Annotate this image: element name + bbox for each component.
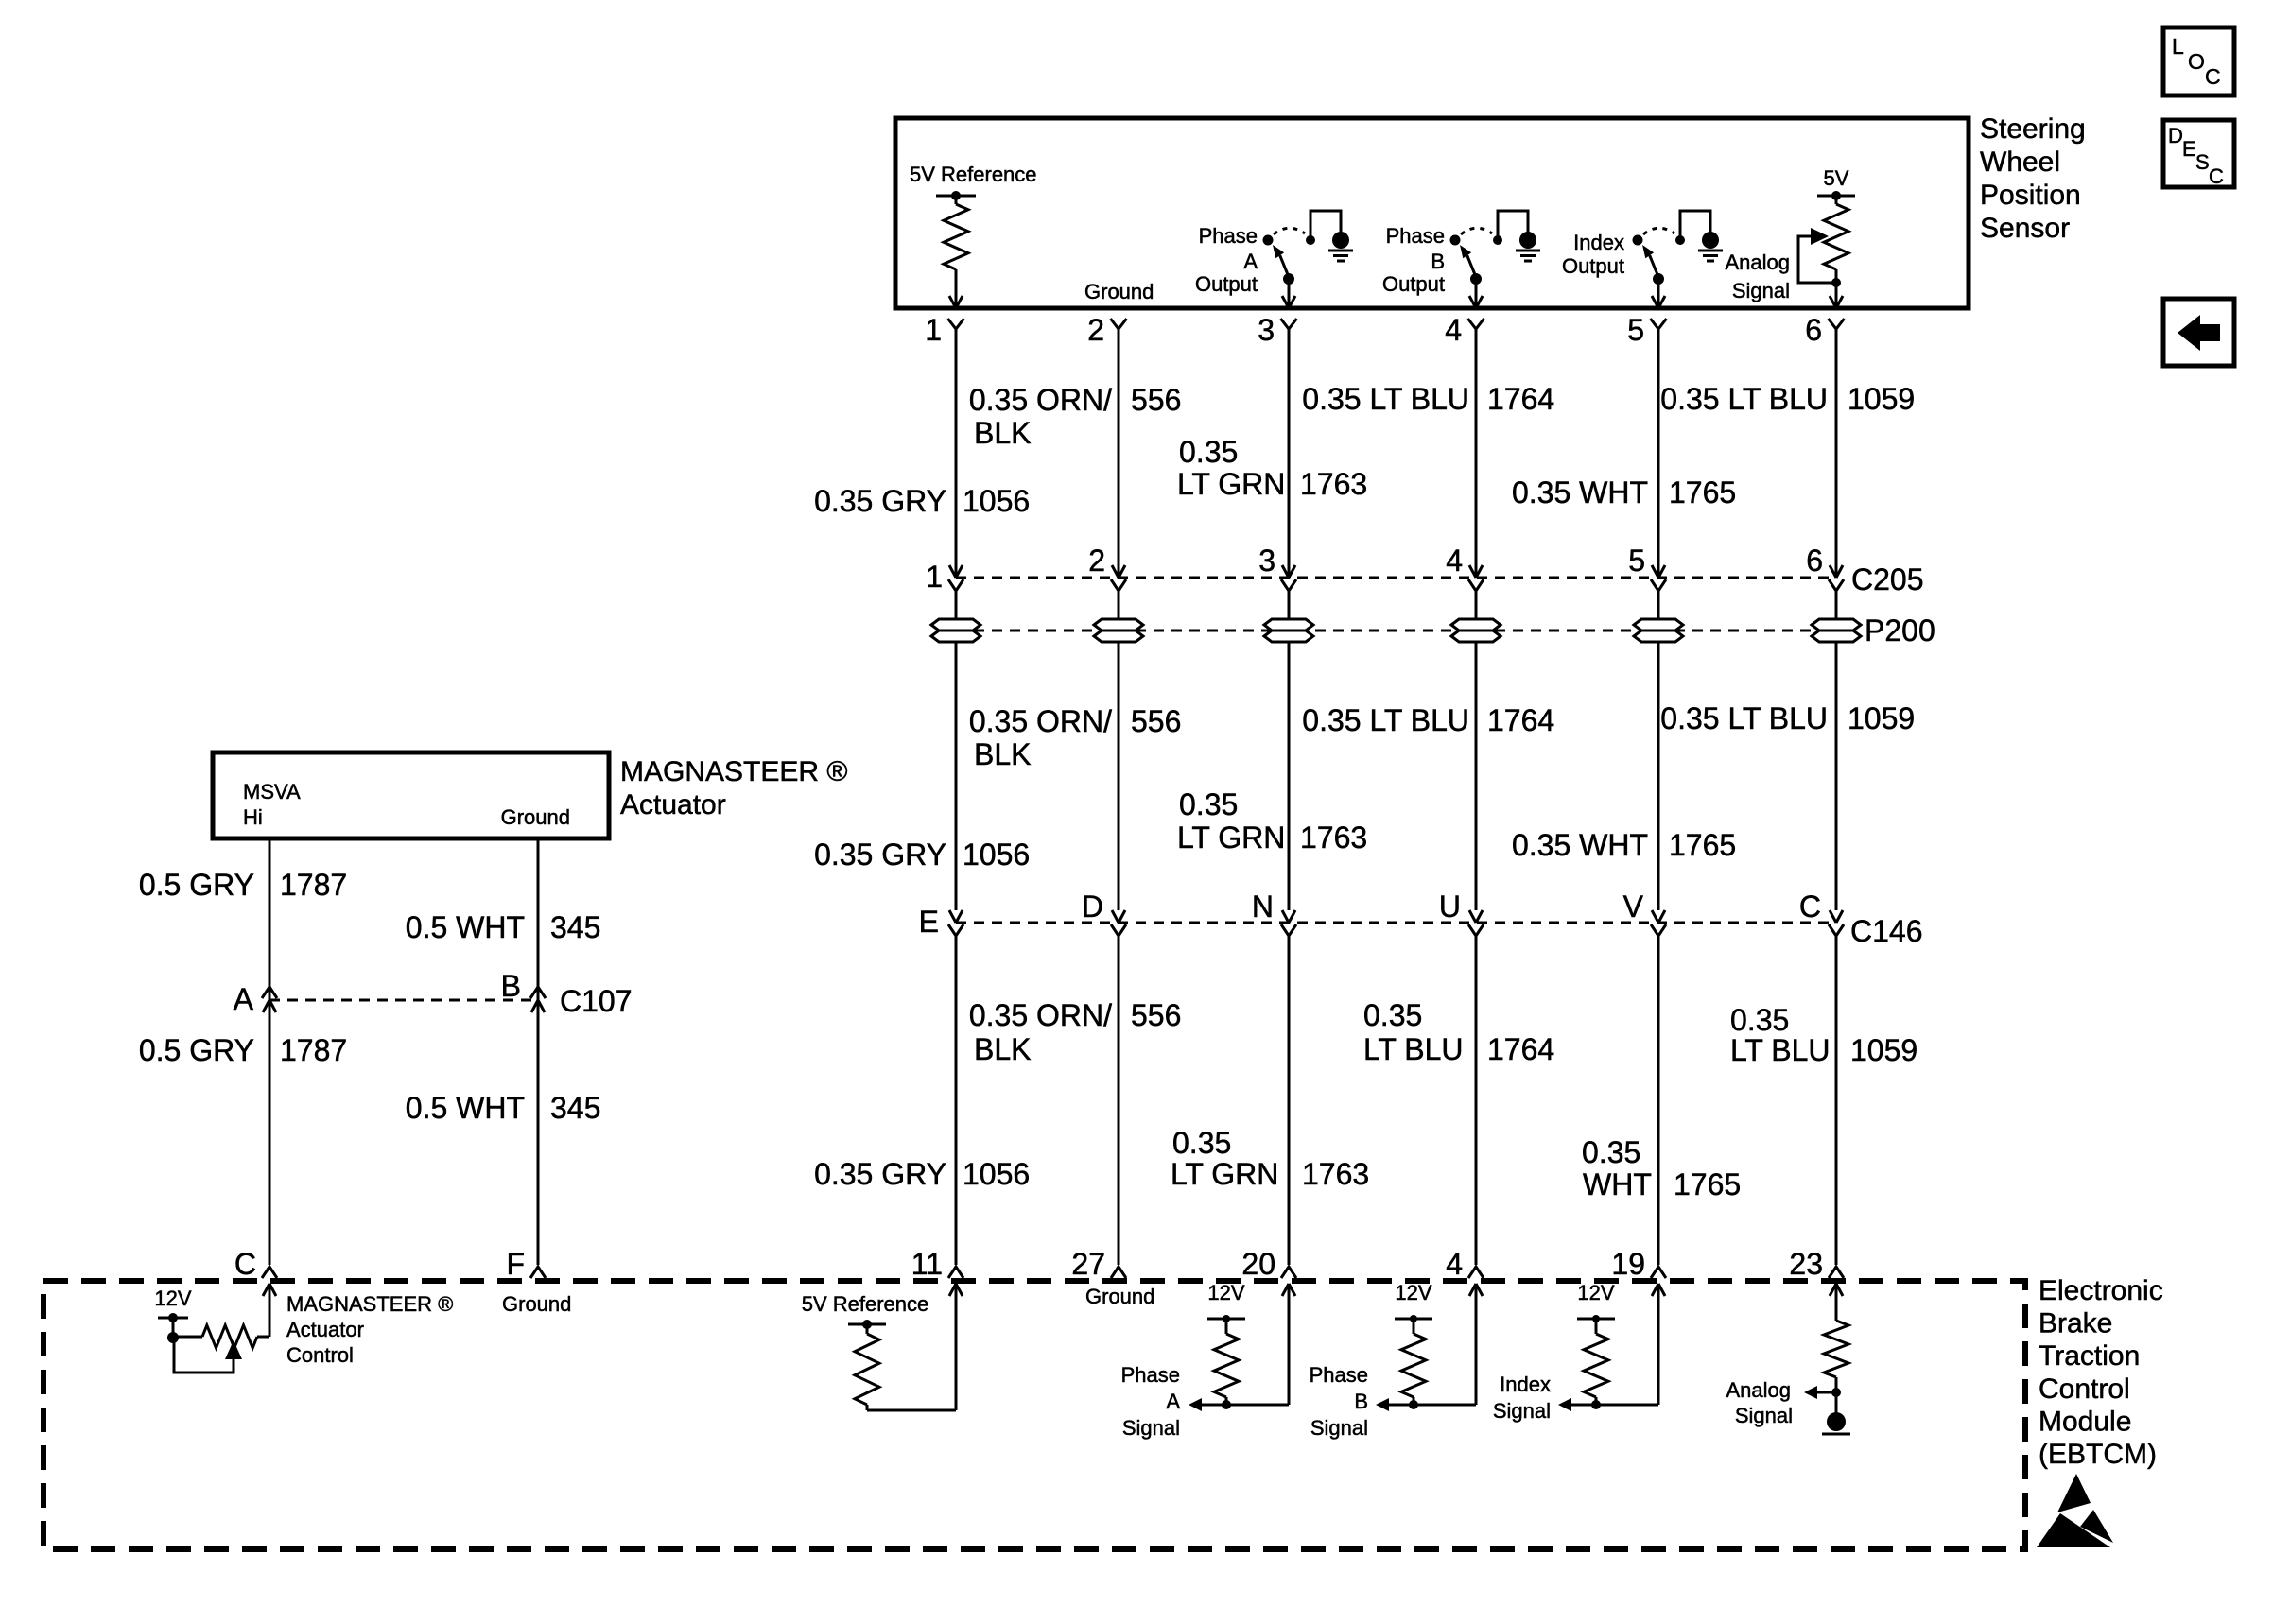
svg-text:Actuator: Actuator <box>286 1318 364 1341</box>
svg-text:MSVA: MSVA <box>243 780 301 803</box>
svg-text:Signal: Signal <box>1735 1404 1793 1427</box>
svg-text:3: 3 <box>1258 313 1275 347</box>
svg-text:B: B <box>1431 250 1445 273</box>
svg-text:LT GRN: LT GRN <box>1171 1157 1278 1191</box>
svg-text:C107: C107 <box>560 984 633 1018</box>
svg-text:LT GRN: LT GRN <box>1177 467 1285 501</box>
svg-text:0.35 ORN/: 0.35 ORN/ <box>969 704 1112 738</box>
svg-text:L: L <box>2172 34 2184 59</box>
svg-text:1: 1 <box>925 313 942 347</box>
svg-text:Phase: Phase <box>1386 224 1445 248</box>
svg-text:U: U <box>1439 890 1461 924</box>
svg-text:LT BLU: LT BLU <box>1730 1033 1831 1067</box>
svg-text:1765: 1765 <box>1669 828 1736 862</box>
svg-text:C: C <box>2205 64 2221 89</box>
svg-text:1059: 1059 <box>1848 701 1915 735</box>
svg-text:1764: 1764 <box>1487 1032 1554 1066</box>
svg-text:0.35 LT BLU: 0.35 LT BLU <box>1302 382 1469 416</box>
svg-text:27: 27 <box>1071 1247 1105 1281</box>
svg-text:556: 556 <box>1131 998 1181 1032</box>
svg-text:Ground: Ground <box>502 1292 571 1316</box>
svg-text:D: D <box>1082 890 1103 924</box>
svg-text:556: 556 <box>1131 383 1181 417</box>
svg-text:0.35: 0.35 <box>1363 998 1422 1032</box>
svg-text:0.5 WHT: 0.5 WHT <box>406 910 525 944</box>
svg-text:Steering: Steering <box>1980 113 2086 145</box>
svg-text:V: V <box>1623 890 1644 924</box>
svg-text:0.35: 0.35 <box>1172 1126 1231 1160</box>
svg-text:F: F <box>506 1247 525 1281</box>
svg-text:(EBTCM): (EBTCM) <box>2039 1439 2157 1470</box>
svg-text:N: N <box>1252 890 1274 924</box>
svg-text:12V: 12V <box>1577 1281 1614 1304</box>
svg-text:4: 4 <box>1445 313 1462 347</box>
svg-text:A: A <box>1243 250 1258 273</box>
svg-text:Signal: Signal <box>1732 279 1790 302</box>
svg-text:Control: Control <box>2039 1373 2130 1405</box>
svg-text:0.35 LT BLU: 0.35 LT BLU <box>1660 701 1828 735</box>
svg-text:0.35 GRY: 0.35 GRY <box>814 484 946 518</box>
svg-text:2: 2 <box>1088 544 1105 578</box>
svg-text:P200: P200 <box>1865 613 1935 648</box>
svg-text:MAGNASTEER ®: MAGNASTEER ® <box>286 1292 453 1316</box>
svg-text:0.5 GRY: 0.5 GRY <box>139 868 254 902</box>
svg-text:Ground: Ground <box>1084 280 1154 303</box>
svg-text:4: 4 <box>1446 1247 1463 1281</box>
svg-text:345: 345 <box>550 910 600 944</box>
svg-text:Hi: Hi <box>243 805 263 829</box>
svg-text:BLK: BLK <box>974 737 1031 771</box>
svg-text:Signal: Signal <box>1310 1416 1368 1440</box>
svg-text:1: 1 <box>926 560 943 594</box>
svg-text:Output: Output <box>1562 254 1624 278</box>
svg-text:0.35 ORN/: 0.35 ORN/ <box>969 383 1112 417</box>
svg-text:1056: 1056 <box>963 1157 1030 1191</box>
svg-text:A: A <box>234 982 254 1016</box>
svg-text:5V: 5V <box>1824 166 1849 190</box>
svg-text:Phase: Phase <box>1121 1363 1180 1387</box>
svg-text:5V Reference: 5V Reference <box>910 163 1037 186</box>
svg-text:1059: 1059 <box>1850 1033 1917 1067</box>
svg-text:A: A <box>1166 1390 1180 1413</box>
svg-text:C146: C146 <box>1850 914 1923 948</box>
svg-text:Analog: Analog <box>1726 1378 1791 1402</box>
svg-text:Output: Output <box>1195 272 1258 296</box>
svg-text:0.5 WHT: 0.5 WHT <box>406 1091 525 1125</box>
svg-text:BLK: BLK <box>974 416 1031 450</box>
svg-text:1764: 1764 <box>1487 703 1554 737</box>
svg-text:B: B <box>501 969 521 1003</box>
svg-text:0.35: 0.35 <box>1730 1003 1789 1037</box>
svg-text:Signal: Signal <box>1122 1416 1180 1440</box>
svg-text:Control: Control <box>286 1343 354 1367</box>
svg-text:Index: Index <box>1573 231 1624 254</box>
svg-text:E: E <box>919 905 939 939</box>
svg-text:Analog: Analog <box>1725 251 1790 274</box>
svg-text:0.35 GRY: 0.35 GRY <box>814 1157 946 1191</box>
svg-text:0.35 LT BLU: 0.35 LT BLU <box>1302 703 1469 737</box>
svg-text:11: 11 <box>911 1247 943 1281</box>
svg-text:12V: 12V <box>1395 1281 1431 1304</box>
svg-text:Ground: Ground <box>501 805 570 829</box>
svg-text:LT GRN: LT GRN <box>1177 821 1285 855</box>
svg-text:12V: 12V <box>154 1287 191 1310</box>
svg-text:C: C <box>2209 164 2224 188</box>
svg-text:12V: 12V <box>1207 1281 1244 1304</box>
svg-text:20: 20 <box>1241 1247 1275 1281</box>
svg-text:1787: 1787 <box>280 868 347 902</box>
svg-text:23: 23 <box>1789 1247 1823 1281</box>
svg-text:4: 4 <box>1446 544 1463 578</box>
svg-text:1765: 1765 <box>1669 475 1736 510</box>
svg-text:C: C <box>234 1247 256 1281</box>
svg-text:O: O <box>2188 49 2205 74</box>
svg-text:0.5 GRY: 0.5 GRY <box>139 1033 254 1067</box>
svg-text:D: D <box>2168 124 2183 147</box>
svg-text:3: 3 <box>1258 544 1275 578</box>
svg-text:C205: C205 <box>1851 562 1924 596</box>
svg-text:WHT: WHT <box>1583 1167 1652 1201</box>
svg-text:1059: 1059 <box>1848 382 1915 416</box>
svg-text:E: E <box>2182 137 2196 161</box>
svg-text:5: 5 <box>1627 313 1644 347</box>
svg-text:5: 5 <box>1628 544 1645 578</box>
svg-text:0.35 WHT: 0.35 WHT <box>1512 475 1648 510</box>
svg-text:B: B <box>1354 1390 1368 1413</box>
svg-text:345: 345 <box>550 1091 600 1125</box>
svg-text:Brake: Brake <box>2039 1308 2112 1339</box>
svg-text:1763: 1763 <box>1300 467 1367 501</box>
svg-text:Traction: Traction <box>2039 1340 2140 1372</box>
svg-text:0.35: 0.35 <box>1179 787 1238 821</box>
svg-text:1763: 1763 <box>1302 1157 1369 1191</box>
svg-text:Output: Output <box>1382 272 1445 296</box>
svg-text:Phase: Phase <box>1310 1363 1368 1387</box>
svg-text:Sensor: Sensor <box>1980 213 2070 244</box>
svg-text:0.35: 0.35 <box>1179 435 1238 469</box>
svg-text:0.35: 0.35 <box>1582 1135 1640 1169</box>
svg-text:1056: 1056 <box>963 838 1030 872</box>
svg-text:6: 6 <box>1806 544 1823 578</box>
svg-text:Wheel: Wheel <box>1980 147 2060 178</box>
svg-text:Electronic: Electronic <box>2039 1275 2163 1306</box>
svg-text:S: S <box>2195 150 2210 174</box>
svg-text:5V Reference: 5V Reference <box>802 1292 929 1316</box>
svg-text:19: 19 <box>1611 1247 1645 1281</box>
svg-text:2: 2 <box>1087 313 1104 347</box>
svg-text:0.35 WHT: 0.35 WHT <box>1512 828 1648 862</box>
svg-text:Position: Position <box>1980 180 2081 211</box>
svg-text:1056: 1056 <box>963 484 1030 518</box>
svg-text:Module: Module <box>2039 1406 2131 1437</box>
svg-text:0.35 LT BLU: 0.35 LT BLU <box>1660 382 1828 416</box>
svg-text:Actuator: Actuator <box>620 789 726 821</box>
svg-text:1787: 1787 <box>280 1033 347 1067</box>
svg-text:LT BLU: LT BLU <box>1363 1032 1464 1066</box>
svg-text:Signal: Signal <box>1493 1399 1551 1423</box>
svg-text:1763: 1763 <box>1300 821 1367 855</box>
svg-text:0.35 ORN/: 0.35 ORN/ <box>969 998 1112 1032</box>
svg-text:556: 556 <box>1131 704 1181 738</box>
svg-text:6: 6 <box>1805 313 1822 347</box>
svg-text:0.35 GRY: 0.35 GRY <box>814 838 946 872</box>
svg-text:MAGNASTEER ®: MAGNASTEER ® <box>620 756 847 787</box>
svg-text:Ground: Ground <box>1085 1285 1154 1308</box>
svg-text:Phase: Phase <box>1199 224 1258 248</box>
svg-text:C: C <box>1799 890 1821 924</box>
svg-text:BLK: BLK <box>974 1032 1031 1066</box>
svg-text:1764: 1764 <box>1487 382 1554 416</box>
svg-text:1765: 1765 <box>1674 1167 1741 1201</box>
svg-text:Index: Index <box>1500 1373 1551 1396</box>
